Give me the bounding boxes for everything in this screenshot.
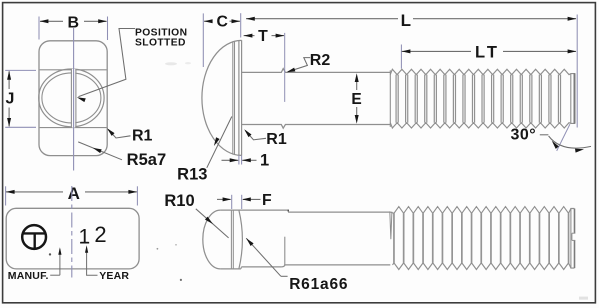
dimension F extension lines bbox=[232, 195, 242, 209]
svg-text:LT: LT bbox=[475, 44, 500, 62]
svg-text:L: L bbox=[401, 11, 411, 30]
thread flank lines (lower bolt) bbox=[394, 213, 569, 263]
label R1 front view text bbox=[132, 128, 153, 145]
svg-text:R61a66: R61a66 bbox=[289, 276, 348, 293]
faint smudge top area bbox=[165, 62, 191, 65]
label R13 leader bbox=[207, 117, 232, 168]
label R2 leader bbox=[286, 58, 310, 73]
dimension E line bbox=[356, 82, 358, 116]
30deg leader line bbox=[540, 134, 549, 136]
chamfer edge line 30deg bbox=[557, 124, 570, 151]
POSITION SLOTTED leader bbox=[77, 29, 135, 103]
svg-text:B: B bbox=[68, 15, 80, 32]
svg-text:R2: R2 bbox=[310, 52, 331, 69]
svg-text:R1: R1 bbox=[266, 131, 287, 148]
svg-text:MANUF.: MANUF. bbox=[8, 270, 49, 282]
svg-text:1: 1 bbox=[78, 225, 90, 248]
shank bottom edge with fillet mark bbox=[242, 125, 391, 129]
svg-text:E: E bbox=[351, 91, 361, 108]
svg-text:R13: R13 bbox=[177, 166, 207, 184]
dimension J label bbox=[6, 91, 15, 108]
dimension A label bbox=[68, 184, 80, 203]
year digit 2 bbox=[94, 222, 106, 247]
label R2 text bbox=[310, 52, 331, 69]
stray speck 2 bbox=[180, 279, 182, 281]
thread flank lines (upper bolt) bbox=[396, 75, 560, 123]
lower head bottom edge bbox=[220, 268, 241, 270]
dimension F label bbox=[262, 192, 272, 209]
label R5a7 text bbox=[127, 151, 166, 169]
svg-text:R10: R10 bbox=[164, 192, 194, 210]
label R10 leader bbox=[196, 209, 229, 238]
head front view rounded square outline bbox=[39, 41, 107, 156]
head front view outer dome circle bbox=[39, 69, 104, 127]
label R10 text bbox=[164, 192, 194, 210]
lower bolt end face with slot notch bbox=[571, 209, 575, 269]
svg-text:R1: R1 bbox=[132, 128, 153, 145]
dimension C label bbox=[216, 14, 227, 31]
head front view top chord line bbox=[40, 69, 107, 71]
label R1 front view leader bbox=[107, 128, 131, 138]
YEAR leader bbox=[85, 245, 98, 275]
head side view face line bbox=[238, 40, 240, 155]
dimension F line bbox=[217, 198, 261, 200]
dimension B label bbox=[68, 15, 80, 32]
dimension 1 arrows bbox=[230, 158, 251, 162]
upper bolt end face bbox=[571, 73, 575, 124]
30deg label bbox=[510, 127, 536, 144]
dimension T extension line bbox=[284, 33, 286, 102]
thread runout line (upper bolt) bbox=[389, 70, 391, 127]
svg-text:1: 1 bbox=[260, 151, 269, 169]
30deg arc arrows bbox=[552, 141, 584, 153]
washer face extension (blue) below head bbox=[239, 155, 242, 164]
dot after logo bbox=[49, 253, 51, 255]
label R61a66 text bbox=[289, 276, 348, 293]
dimension L label bbox=[401, 11, 411, 30]
dimension LT left extension line bbox=[400, 45, 402, 69]
label R61a66 leader bbox=[246, 238, 287, 276]
dimension C extension lines bbox=[203, 13, 240, 67]
dimension E arrows bbox=[355, 73, 359, 124]
lower shank bottom edge bbox=[282, 265, 391, 267]
dimension F arrows bbox=[223, 197, 251, 201]
dimension LT line bbox=[402, 50, 576, 52]
svg-text:30°: 30° bbox=[510, 127, 536, 144]
dimension LT arrows bbox=[402, 49, 577, 53]
dimension 1 line bbox=[222, 159, 257, 161]
dimension L line bbox=[246, 18, 576, 20]
dimension C arrows bbox=[204, 19, 241, 23]
thread crest zigzag top edge (upper bolt) bbox=[390, 69, 575, 74]
dimension LT label bbox=[475, 44, 500, 62]
label R13 text bbox=[177, 166, 207, 184]
30deg dimension arc bbox=[549, 136, 591, 148]
svg-text:R5a7: R5a7 bbox=[127, 151, 166, 169]
label R1 side view text bbox=[266, 131, 287, 148]
dimension J line bbox=[8, 71, 10, 126]
MANUF. leader bbox=[50, 247, 61, 275]
thread crest zigzag bottom edge (lower bolt) bbox=[393, 263, 575, 270]
svg-text:F: F bbox=[262, 192, 272, 209]
lower head face step bbox=[241, 267, 282, 269]
dimension L arrows bbox=[246, 17, 576, 21]
lower slot end line bbox=[284, 237, 286, 265]
dimension B extension lines bbox=[39, 17, 108, 41]
dimension T line bbox=[244, 35, 284, 37]
head marking view rounded rectangle bbox=[6, 208, 139, 269]
head side view dome arc bbox=[202, 40, 242, 155]
dimension C line bbox=[204, 20, 240, 22]
svg-text:C: C bbox=[216, 14, 227, 31]
YEAR label text bbox=[99, 270, 129, 282]
L and LT right extension line bbox=[576, 15, 578, 128]
svg-text:SLOTTED: SLOTTED bbox=[135, 38, 186, 49]
svg-text:T: T bbox=[258, 28, 268, 45]
svg-text:J: J bbox=[6, 91, 15, 108]
dimension E label bbox=[351, 91, 361, 108]
dimension A arrows bbox=[6, 190, 137, 194]
thread runout spike (lower bolt) bbox=[390, 211, 392, 239]
dimension T label bbox=[258, 28, 268, 45]
svg-text:2: 2 bbox=[94, 222, 106, 247]
head side view slot depth lines bbox=[233, 41, 235, 154]
year digit 1 bbox=[78, 225, 90, 248]
dimension J extension lines bbox=[5, 70, 36, 127]
label R5a7 leader bbox=[78, 142, 122, 160]
centerline of marking view bbox=[71, 186, 73, 278]
dimension B line bbox=[40, 20, 107, 22]
dimension J arrows bbox=[7, 71, 11, 127]
dimension 1 label bbox=[260, 151, 269, 169]
faint smudge near bottom border bbox=[579, 297, 588, 300]
svg-text:A: A bbox=[68, 184, 80, 203]
lower head cap arc bbox=[203, 210, 221, 269]
slot (front view) bbox=[71, 69, 76, 128]
dimension B arrows bbox=[40, 19, 107, 23]
POSITION SLOTTED note text bbox=[135, 27, 187, 48]
lower head top edge bbox=[220, 209, 287, 211]
thread crest zigzag top edge (lower bolt) bbox=[390, 207, 574, 214]
thread crest zigzag bottom edge (upper bolt) bbox=[390, 123, 575, 128]
stray speck 1 bbox=[157, 248, 159, 250]
head front view inner dome circle bbox=[42, 73, 101, 123]
lower head crown curve (R61a66) bbox=[239, 210, 243, 269]
dimension A extension lines bbox=[6, 186, 138, 205]
vertical centerline of head front view bbox=[73, 28, 75, 171]
stray speck 3 bbox=[175, 244, 177, 246]
shank top edge with fillet mark bbox=[242, 69, 391, 73]
head front view bottom chord line bbox=[40, 127, 107, 129]
svg-text:YEAR: YEAR bbox=[99, 270, 129, 282]
label R1 side view leader bbox=[244, 129, 266, 140]
head side view washer face line bbox=[241, 40, 243, 155]
dimension A line bbox=[6, 191, 137, 193]
dimension T arrows bbox=[244, 34, 285, 38]
lower head slot lines bbox=[231, 210, 233, 269]
manufacturer logo (circle with T) bbox=[22, 225, 46, 249]
lower shank top edge step bbox=[287, 210, 390, 213]
MANUF. label text bbox=[8, 270, 49, 282]
